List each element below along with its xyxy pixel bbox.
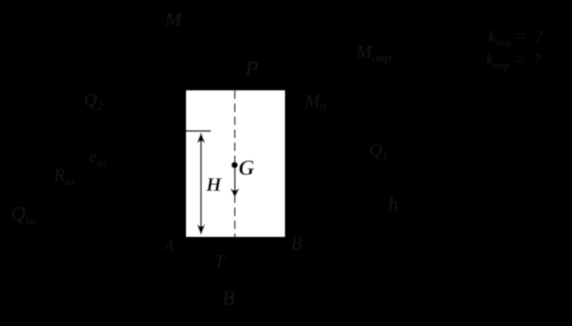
liquid level tick: [186, 130, 211, 132]
svg-text:B: B: [291, 234, 302, 254]
svg-text:H: H: [205, 174, 223, 196]
weight arrow: [234, 167, 236, 191]
dashed centerline: [234, 91, 236, 237]
svg-text:P: P: [244, 56, 258, 81]
svg-text:M: M: [164, 9, 183, 31]
svg-text:h: h: [388, 192, 399, 216]
svg-text:T: T: [214, 252, 226, 273]
svg-text:B: B: [222, 286, 235, 310]
H dimension arrow: [200, 134, 202, 233]
svg-text:G: G: [239, 155, 255, 180]
center of gravity dot G: [231, 162, 238, 169]
vessel white rectangle: [186, 90, 285, 237]
svg-text:A: A: [164, 238, 175, 255]
